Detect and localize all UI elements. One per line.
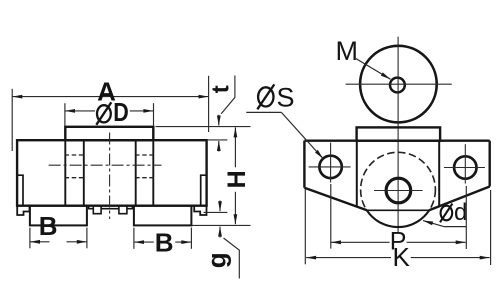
- bracket left edge: [303, 141, 305, 188]
- bracket right diagonal: [429, 187, 490, 211]
- dimension H line upper: [234, 127, 236, 167]
- bracket right edge: [489, 141, 491, 187]
- leader for M: [356, 59, 391, 80]
- dimension phiD line left segment: [65, 110, 95, 112]
- leader for phiS arrow: [281, 112, 323, 158]
- dimension g lower arrow: [219, 227, 221, 238]
- leader for t: [221, 76, 235, 114]
- svg-text:S: S: [277, 82, 295, 112]
- main vertical centerline: [397, 37, 399, 233]
- top flange: [65, 127, 153, 140]
- bracket top edge: [304, 139, 489, 141]
- leader for g: [224, 238, 240, 279]
- bottom hook left: [17, 206, 29, 215]
- side tab left: [18, 175, 23, 206]
- svg-text:K: K: [393, 242, 411, 272]
- dimension A extension right: [208, 76, 210, 132]
- frame inner line right: [135, 140, 137, 206]
- dimension P extension right: [465, 186, 467, 249]
- dimension g upper arrow: [219, 201, 221, 212]
- svg-text:g: g: [202, 252, 232, 268]
- right foot: [134, 206, 192, 226]
- frame side line left: [64, 140, 66, 206]
- dimension g foot-bottom reference line: [192, 224, 251, 226]
- wheel horizontal centerline: [346, 83, 452, 85]
- hub circle: [386, 178, 411, 203]
- center bottom strip: [89, 206, 133, 209]
- dimension g foot-top reference line: [204, 211, 228, 213]
- frame side line right: [152, 140, 154, 206]
- flange (side view): [357, 127, 441, 140]
- body outline: [17, 140, 207, 206]
- center tooth right: [119, 206, 127, 214]
- dimension t lower arrow: [218, 141, 220, 152]
- svg-text:H: H: [223, 170, 251, 188]
- dimension P line segments: [331, 241, 390, 243]
- mounting hole right crosshair: [444, 167, 485, 169]
- leader for phid: [444, 226, 467, 228]
- dimension phiD extension right: [153, 103, 155, 126]
- center block left side: [356, 141, 358, 207]
- dimension A line: [12, 96, 208, 98]
- dimension B left extension lines: [29, 228, 31, 249]
- wheel bottom arc: [367, 210, 429, 227]
- label phiD phi symbol: [96, 102, 111, 125]
- dimension K extension left: [304, 189, 306, 264]
- bracket left diagonal: [304, 188, 367, 211]
- dimension B right line segments: [134, 241, 154, 243]
- svg-text:D: D: [113, 97, 129, 127]
- svg-text:d: d: [454, 199, 467, 226]
- svg-text:M: M: [336, 36, 359, 66]
- dimension phiD extension left: [64, 103, 66, 126]
- frame inner line left: [83, 140, 85, 206]
- center block right side: [438, 141, 440, 207]
- svg-text:B: B: [155, 228, 174, 258]
- svg-text:t: t: [208, 85, 235, 93]
- side tab right: [201, 175, 206, 206]
- dimension P extension left: [330, 184, 332, 249]
- dimension t flange-top reference line: [156, 126, 251, 128]
- vertical centerline: [109, 133, 111, 220]
- dimension A extension left: [11, 89, 13, 151]
- hidden wheel circle (dashed): [361, 152, 436, 227]
- dimension phiD line right segment: [130, 110, 154, 112]
- dimension t upper arrow: [218, 115, 220, 126]
- bottom chord line: [367, 209, 429, 211]
- axle circle: [390, 78, 405, 93]
- hidden hole line lower right: [135, 177, 154, 179]
- leader for phiS underline: [246, 111, 281, 113]
- mounting hole left: [319, 156, 341, 178]
- mounting hole right: [454, 156, 476, 178]
- svg-text:B: B: [39, 211, 58, 241]
- hidden hole line upper left: [65, 154, 85, 156]
- hidden hole line lower left: [65, 177, 85, 179]
- center tooth left: [93, 206, 101, 214]
- dimension t body-top reference line: [207, 139, 227, 141]
- mounting hole left crosshair: [309, 166, 351, 168]
- dimension K line segments: [306, 257, 391, 259]
- horizontal centerline: [49, 164, 162, 166]
- dimension K extension right: [490, 190, 492, 265]
- dimension B left line segments: [30, 241, 50, 243]
- label phiS phi symbol: [257, 84, 274, 109]
- wheel circle: [360, 46, 437, 123]
- left foot: [30, 206, 87, 226]
- hidden hole line upper right: [135, 154, 154, 156]
- dimension B right extension lines: [133, 228, 135, 249]
- hub horizontal centerline: [374, 190, 423, 192]
- bottom hook right: [194, 206, 206, 215]
- dimension H line lower: [234, 192, 236, 224]
- label phid phi symbol: [440, 204, 452, 223]
